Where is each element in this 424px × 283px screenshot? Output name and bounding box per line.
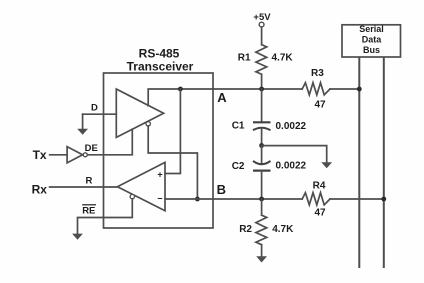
wire Rx to receiver output [50, 186, 118, 188]
receiver enable bubble [130, 194, 134, 198]
label C2 [232, 161, 245, 172]
resistor R1 [256, 45, 267, 75]
value 47 (R4) [314, 208, 326, 219]
wire Tx to inverter [50, 154, 67, 156]
ground at capacitor midpoint [321, 162, 332, 168]
svg-text:47: 47 [314, 99, 326, 110]
svg-text:−: − [157, 194, 162, 204]
inverter buffer at Tx [67, 147, 83, 163]
svg-text:C1: C1 [232, 121, 245, 132]
svg-text:DE: DE [85, 143, 98, 154]
svg-text:4.7K: 4.7K [272, 53, 294, 64]
junction dot R4 to bus wire 2 [381, 197, 386, 202]
ground at RE [72, 234, 83, 240]
node A junction dot [178, 87, 183, 92]
svg-text:+5V: +5V [253, 12, 271, 23]
wire driver inverting output to node B [148, 126, 197, 199]
label R2 [239, 224, 252, 235]
svg-text:Rx: Rx [32, 182, 48, 196]
wire +5V to R1 [261, 27, 263, 45]
label R3 [311, 68, 324, 79]
value 4.7K (R1) [272, 53, 294, 64]
supply +5V [253, 12, 271, 27]
svg-text:0.0022: 0.0022 [276, 161, 307, 172]
label A [217, 90, 227, 105]
svg-text:R1: R1 [238, 53, 251, 64]
svg-text:R: R [86, 175, 93, 186]
label DE pin [85, 143, 98, 154]
bus wire 2 [383, 57, 385, 268]
svg-text:B: B [217, 182, 226, 197]
svg-text:47: 47 [314, 208, 326, 219]
svg-text:Transceiver: Transceiver [127, 59, 194, 73]
ground at R2 [256, 256, 267, 262]
wire junction to C2 [261, 146, 263, 164]
wire driver output to node A [148, 89, 359, 106]
value 0.0022 (C1) [276, 121, 307, 132]
svg-text:Tx: Tx [33, 148, 47, 162]
svg-text:D: D [91, 102, 98, 113]
capacitor C2 [253, 161, 271, 171]
resistor R2 [256, 215, 267, 245]
label B [217, 182, 226, 197]
inverter output bubble [83, 153, 87, 157]
label R1 [238, 53, 251, 64]
wire C2 to node B [261, 171, 263, 199]
wire DE to driver enable [87, 129, 132, 155]
driver inverting output bubble [146, 122, 150, 126]
receiver amplifier (triangle) [117, 162, 165, 210]
wire D input [83, 113, 117, 115]
wire node B line (receiver - input to bus) [165, 198, 384, 200]
label R pin [86, 175, 93, 186]
driver amplifier (triangle) [116, 89, 163, 137]
svg-text:RE: RE [82, 206, 95, 217]
value 4.7K (R2) [272, 224, 294, 235]
svg-text:C2: C2 [232, 161, 245, 172]
serial data bus box [342, 24, 401, 57]
svg-text:Serial: Serial [359, 24, 384, 34]
label RS-485 Transceiver [127, 47, 194, 74]
wire node A to C1 [261, 89, 263, 122]
wire node B to R2 [261, 199, 263, 215]
junction dot C2/R2 on node B [259, 197, 264, 202]
svg-text:A: A [217, 90, 227, 105]
label Tx [33, 148, 47, 162]
svg-text:Bus: Bus [363, 45, 380, 55]
bus wire 1 [358, 57, 360, 268]
ground at D input [77, 114, 88, 135]
svg-text:R4: R4 [313, 181, 326, 192]
wire C1 to midpoint junction [261, 129, 263, 146]
label C1 [232, 121, 245, 132]
junction dot R1/C1 on node A [259, 87, 264, 92]
wire RE enable [78, 199, 133, 234]
wire junction to ground arm [262, 146, 327, 163]
value 47 (R3) [314, 99, 326, 110]
node B junction dot at receiver output [195, 197, 200, 202]
transceiver box U1 [104, 73, 214, 228]
svg-text:4.7K: 4.7K [272, 224, 294, 235]
wire R2 to ground [261, 245, 263, 257]
value 0.0022 (C2) [276, 161, 307, 172]
wire node A to receiver + input [165, 89, 180, 174]
label Rx [32, 182, 48, 196]
svg-text:R2: R2 [239, 224, 252, 235]
svg-text:+: + [157, 169, 162, 179]
svg-text:R3: R3 [311, 68, 324, 79]
svg-text:Data: Data [362, 34, 383, 44]
label R4 [313, 181, 326, 192]
resistor R4 [302, 193, 330, 205]
wire R1 to node A [261, 74, 263, 89]
label D pin [91, 102, 98, 113]
svg-text:0.0022: 0.0022 [276, 121, 307, 132]
junction dot R3 to bus wire 1 [357, 87, 362, 92]
label RE pin (overline) [82, 205, 96, 217]
resistor R3 [302, 83, 330, 95]
capacitor C1 [253, 122, 271, 130]
junction dot C1/C2 [259, 143, 264, 148]
